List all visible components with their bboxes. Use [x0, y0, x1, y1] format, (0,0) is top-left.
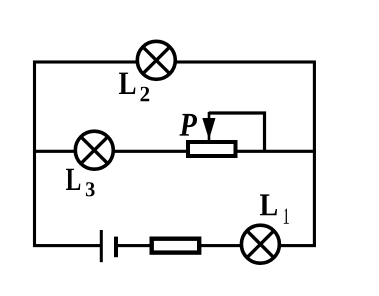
- battery gap: [103, 240, 115, 252]
- potentiometer P body: [188, 142, 236, 156]
- label L3 letter L: [66, 169, 80, 190]
- lamp L1: [241, 225, 279, 263]
- battery short plate: [114, 237, 118, 258]
- lamp L2: [137, 41, 175, 79]
- label L2 subscript 2: [141, 87, 150, 101]
- label L2 letter L: [119, 73, 135, 94]
- wire potentiometer tap: [209, 113, 265, 151]
- battery long plate: [100, 230, 103, 262]
- wire outer loop: [35, 62, 315, 246]
- label L1 letter L: [260, 194, 277, 215]
- resistor R body: [152, 239, 200, 253]
- potentiometer wiper arrow: [202, 112, 215, 142]
- label L1 subscript 1: [284, 208, 289, 223]
- label L3 subscript 3: [86, 182, 95, 196]
- lamp L3: [75, 131, 113, 169]
- wire middle branch: [33, 150, 316, 153]
- label P: [180, 114, 198, 136]
